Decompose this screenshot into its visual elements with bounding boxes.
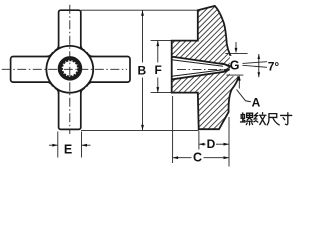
section centerline: [177, 68, 229, 70]
label A with leader: [237, 90, 251, 102]
horizontal arm: [11, 57, 130, 83]
white eraser over right edge where hole punches through: [230, 56, 246, 76]
svg-text:B: B: [137, 63, 146, 77]
fillets at tube/boss junctions: [46, 45, 93, 94]
svg-text:A: A: [252, 95, 261, 109]
svg-text:7°: 7°: [268, 59, 280, 73]
svg-text:E: E: [64, 142, 72, 156]
dimension C: [173, 96, 229, 163]
cun: [281, 113, 292, 125]
luo: [241, 113, 246, 122]
threaded hole: [59, 57, 82, 80]
thread inner lines: [172, 60, 231, 76]
7 degree angle: [243, 54, 268, 77]
dimension F: [151, 41, 172, 93]
dimension E: [49, 132, 91, 158]
svg-text:F: F: [155, 63, 162, 77]
vertical centerline: [69, 5, 71, 134]
vertical tube: [59, 10, 81, 129]
svg-text:C: C: [193, 150, 202, 164]
svg-text:G: G: [230, 58, 240, 72]
dimension B: [81, 10, 199, 130]
thread size text (hand drawn CJK): [241, 113, 292, 125]
chi: [267, 114, 279, 125]
horizontal centerline: [2, 68, 127, 70]
dimension G: [225, 42, 247, 89]
hatched body with taper-hole cutout: [172, 6, 239, 129]
svg-text:D: D: [207, 137, 216, 151]
dimension D: [199, 117, 229, 167]
centerlines: [2, 5, 127, 134]
boss circle: [46, 46, 93, 93]
wen2: [254, 113, 258, 122]
